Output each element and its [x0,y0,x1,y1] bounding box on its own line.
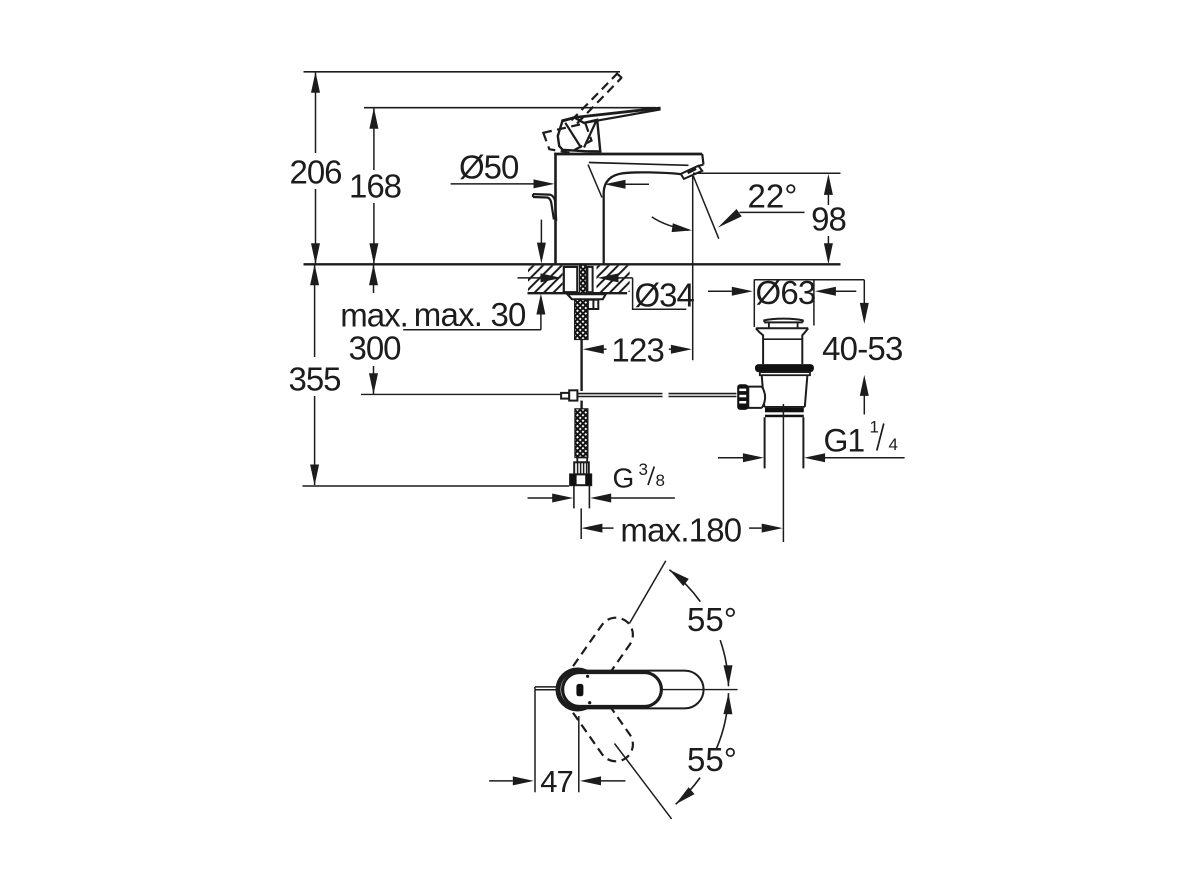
svg-text:206: 206 [289,154,341,191]
svg-text:G: G [613,463,635,494]
O63 dimension arrows [708,290,732,292]
dimension 98 vertical line [827,195,829,206]
svg-text:98: 98 [811,201,846,238]
extension line from spout tip [692,176,694,360]
mounting hole left sleeve block [564,267,578,292]
aerator (22deg tilted outlet) [681,166,702,179]
svg-text:300: 300 [348,330,401,367]
22deg stream line [693,176,719,239]
dimension 206 vertical line [315,72,317,153]
plan view: handle lever capsule (thick outline) [563,673,662,707]
55deg upper reference line [629,561,665,624]
svg-text:G1: G1 [824,422,865,458]
dimension 47 [534,690,536,792]
O34 dimension arrows at hole [518,277,541,279]
max.30 label underline [403,329,541,331]
flexible braided hose (checker) [575,409,588,458]
G1 1/4 dimension arrows [718,457,743,459]
svg-text:max.: max. [340,297,408,334]
drain cap neck [768,322,770,328]
dimension O50 arrows [451,183,534,185]
threaded stud through deck (checker) [580,265,587,294]
dimension 168 vertical line [373,108,375,170]
plan view: long handle capsule (thin outline) [563,671,704,709]
ref line top of raised handle (206 upper reference) [304,71,621,73]
plan view: horizontal center line [662,689,738,691]
55deg lower arc segment b [676,778,701,805]
svg-text:47: 47 [540,764,572,799]
ref line bottom of 355 (hose end reference) [303,485,570,487]
plan view: dashed handle rotated up 55deg [555,611,640,711]
dashed raised lever line 1 [571,74,617,121]
fixing washer plate under deck [567,294,606,299]
dimension max.300 arrows [373,264,375,293]
G3/8 pipe center line [580,508,582,539]
svg-text:max. 30: max. 30 [414,296,526,333]
curved spray arrow [652,217,689,230]
handle lever blade top line [562,108,661,121]
plan view: base escutcheon ring [558,670,597,709]
svg-text:123: 123 [611,332,664,369]
svg-text:55°: 55° [687,601,737,638]
dimension 123 [583,345,604,354]
dimension 355 vertical line [314,264,316,357]
G3/8 dimension arrows [528,497,553,499]
55deg lower reference line [615,744,672,819]
drain flange inner line [763,338,802,340]
max.30 lower arrow under deck [536,294,545,315]
pull rod below shank [580,340,582,392]
drain plug cap dome [764,319,803,323]
deck hatch right of hole [597,266,630,292]
plan view: indicator slot [576,684,583,696]
svg-text:Ø34: Ø34 [635,277,695,314]
ref line from spout outlet (98 upper reference) [693,172,841,174]
svg-text:8: 8 [656,471,665,490]
threaded shank below deck (checker) [575,299,588,339]
hose hex nut [570,474,591,485]
drain center line [782,404,784,542]
spout underside curve into body [604,172,681,263]
55deg upper arc segment b [720,640,728,686]
drain body sides [762,375,765,407]
drain body bottom line [764,406,805,408]
ref line top of lever (168 upper reference) [364,107,656,109]
drain flange top [756,327,808,329]
plan view: screw dot bottom [588,701,591,704]
svg-text:4: 4 [889,435,898,454]
drain flange sides [756,328,763,364]
dashed raised lever line 2 [577,78,622,124]
O63 extension lines [753,280,755,328]
22deg leader line with arrow [740,211,805,213]
rod stub below tee [580,401,582,409]
aerator slot [688,169,697,173]
55deg upper arc segment a [669,570,700,602]
svg-text:55°: 55° [687,741,737,778]
svg-text:40-53: 40-53 [822,330,902,367]
handle lever blade bottom line [584,109,661,123]
hose end white band [577,458,587,463]
deck bottom line [528,292,628,294]
plan view: dashed handle rotated down 55deg [555,668,640,768]
svg-text:355: 355 [288,361,340,398]
svg-text:Ø50: Ø50 [459,149,519,186]
dashed raised handle knob outline [543,123,591,153]
svg-text:1: 1 [870,418,879,437]
hose knurled nut [574,462,589,474]
linkage tee end cap [561,393,569,399]
O34 leader bend [633,278,687,309]
pop-up rod lever at rear of body [533,194,556,221]
spout right end edge [702,154,703,165]
svg-text:max.180: max.180 [620,511,741,548]
drain side port [748,387,762,408]
drain rubber washer (black band) [755,364,814,372]
svg-text:168: 168 [349,168,401,205]
handle knob facet line 1 [565,123,581,148]
deck hatch left of hole [528,266,563,292]
dimension max.180 [581,524,602,533]
thin diagonal inner edge line [588,165,602,198]
top connector line to 40-53 [754,279,864,281]
drain tailpipe sides [764,417,766,468]
handle knob body outline [558,118,601,152]
mounting hole right sleeve strip [587,267,592,292]
dashed raised lever tip cap [616,73,622,78]
ref line max.300 bottom / linkage level [361,393,561,395]
drain knurled knob [737,384,748,410]
spout inner top line [589,163,689,166]
dimension 40-53 [863,280,865,304]
drain thread band 1 [765,408,804,413]
svg-text:3: 3 [639,460,648,479]
linkage tee block [569,390,577,400]
faucet body top edge [554,153,702,156]
plan view: rear pin lines [535,686,557,688]
max.30 upper arrow at deck top [540,220,542,243]
handle knob facet line 2 [584,121,596,148]
plan view: screw dot top [586,675,589,678]
horizontal linkage rod (left part) [577,393,662,395]
55deg lower arc segment a [717,693,729,748]
countertop deck line [304,263,841,265]
spout underside short edge to aerator [698,165,703,166]
drain thread band 2 [765,415,804,418]
drain washer lower band [760,372,810,375]
G3/8 pipe stub [573,485,575,508]
faucet body left edge [554,153,557,264]
horizontal linkage rod (right part) [669,393,737,395]
svg-text:22°: 22° [748,178,798,215]
side tab of mounting nut [588,300,598,309]
